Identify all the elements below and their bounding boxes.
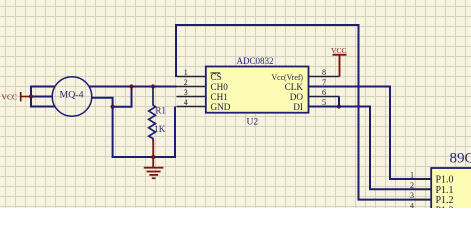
wire VCC to node (maroon): [21, 96, 32, 98]
pin 5 DI: [293, 98, 339, 112]
wire to MQ-4 left bottom: [31, 106, 55, 108]
svg-text:DO: DO: [290, 92, 304, 102]
svg-text:CH1: CH1: [211, 92, 229, 102]
svg-text:VCC: VCC: [2, 92, 18, 101]
svg-text:4: 4: [410, 202, 414, 209]
svg-text:89C51: 89C51: [450, 150, 471, 166]
svg-text:3: 3: [410, 191, 414, 200]
wire ground rail: [112, 156, 176, 158]
power port VCC (left): [2, 92, 22, 101]
svg-text:2: 2: [184, 78, 188, 87]
wire MQ-4 left bus vertical: [30, 86, 32, 108]
wire CLK to P1.0: [309, 87, 432, 180]
svg-text:1: 1: [184, 68, 188, 77]
wire to MQ-4 left top: [31, 86, 55, 88]
svg-text:CLK: CLK: [285, 82, 304, 92]
pin 4 P1.3: [410, 202, 454, 217]
wire to MQ-4 left middle: [31, 96, 53, 98]
wire GND pin down: [174, 107, 176, 159]
svg-text:8: 8: [322, 68, 326, 77]
junction node divider: [111, 105, 115, 109]
wire DI to P1.1: [309, 107, 432, 190]
wire MQ-4 to CH0: [90, 86, 177, 88]
svg-text:3: 3: [184, 88, 188, 97]
junction ground rail / R1: [151, 155, 155, 159]
pin 2 P1.1: [410, 181, 454, 196]
IC 89C51 body: [431, 150, 471, 228]
pin 2 CH0: [177, 78, 229, 92]
svg-text:6: 6: [322, 88, 326, 97]
svg-text:2: 2: [410, 181, 414, 190]
svg-text:GND: GND: [211, 102, 231, 112]
svg-text:U2: U2: [247, 118, 259, 128]
gas sensor MQ-4: [52, 77, 92, 117]
svg-text:4: 4: [184, 98, 188, 107]
pin 1 P1.0: [410, 171, 454, 186]
svg-text:Vcc(Vref): Vcc(Vref): [272, 72, 304, 82]
svg-text:CH0: CH0: [211, 82, 229, 92]
svg-text:VCC: VCC: [331, 46, 347, 55]
svg-text:1K: 1K: [154, 124, 166, 134]
svg-text:R1: R1: [155, 106, 166, 116]
op-amp U1? no : IC U2 ADC0832 body: [206, 56, 309, 128]
pin 3 CH1: [177, 88, 229, 102]
power port VCC (top right): [331, 46, 347, 77]
svg-text:ADC0832: ADC0832: [237, 56, 274, 66]
svg-text:DI: DI: [293, 102, 303, 112]
wire CS loop over IC: [176, 25, 432, 200]
junction VCC/MQ-4: [29, 94, 33, 98]
wire MQ-4 right middle bend: [92, 86, 132, 107]
ground: [144, 140, 164, 179]
wire DO down to DI: [338, 97, 340, 107]
junction node CH0/R1 branch: [129, 84, 133, 88]
svg-text:1: 1: [410, 171, 414, 180]
pin 1 CS: [177, 68, 222, 82]
resistor R1: [149, 87, 166, 142]
pin 7 CLK: [285, 78, 340, 92]
pin 4 GND: [177, 98, 231, 112]
junction DO/DI: [337, 104, 341, 108]
junction R1 top on CH0 wire: [151, 84, 155, 88]
svg-text:P1.3: P1.3: [436, 205, 454, 208]
svg-text:MQ-4: MQ-4: [60, 89, 84, 100]
pin 8 Vcc(Vref): [272, 68, 340, 82]
pin 3 P1.2: [410, 191, 454, 206]
pin 6 DO: [290, 88, 340, 102]
wire down to ground rail: [112, 107, 114, 157]
